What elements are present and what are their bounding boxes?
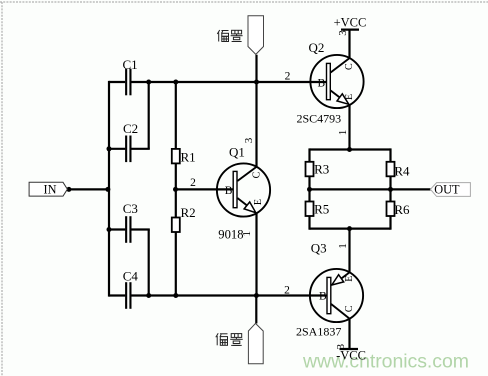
svg-text:www.cntronics.com: www.cntronics.com bbox=[302, 351, 469, 373]
svg-text:OUT: OUT bbox=[434, 183, 460, 197]
svg-text:C1: C1 bbox=[123, 57, 138, 72]
svg-text:3: 3 bbox=[243, 137, 255, 143]
svg-text:IN: IN bbox=[44, 183, 57, 197]
svg-text:E: E bbox=[344, 94, 355, 100]
svg-text:Q2: Q2 bbox=[309, 40, 325, 55]
svg-text:C4: C4 bbox=[123, 269, 139, 284]
svg-text:B: B bbox=[225, 185, 233, 197]
svg-text:C: C bbox=[344, 63, 355, 70]
svg-text:9018: 9018 bbox=[218, 228, 243, 242]
svg-text:R6: R6 bbox=[394, 202, 410, 217]
svg-text:R2: R2 bbox=[181, 205, 196, 220]
svg-text:+VCC: +VCC bbox=[334, 16, 367, 30]
svg-text:1: 1 bbox=[337, 243, 349, 249]
svg-text:R1: R1 bbox=[181, 150, 196, 165]
svg-text:B: B bbox=[319, 291, 327, 303]
svg-text:E: E bbox=[344, 276, 355, 282]
svg-text:R5: R5 bbox=[314, 202, 329, 217]
svg-text:Q3: Q3 bbox=[311, 241, 327, 256]
svg-text:E: E bbox=[253, 199, 264, 205]
svg-text:C: C bbox=[252, 171, 263, 178]
svg-text:3: 3 bbox=[337, 30, 349, 36]
svg-text:R4: R4 bbox=[394, 164, 410, 179]
svg-text:3: 3 bbox=[335, 343, 347, 349]
svg-text:C2: C2 bbox=[123, 121, 138, 136]
svg-text:1: 1 bbox=[337, 130, 349, 136]
svg-text:Q1: Q1 bbox=[229, 144, 245, 159]
svg-text:1: 1 bbox=[241, 231, 253, 237]
svg-text:2SC4793: 2SC4793 bbox=[297, 111, 342, 125]
svg-text:2: 2 bbox=[285, 70, 291, 82]
svg-text:2: 2 bbox=[284, 285, 290, 297]
svg-text:2SA1837: 2SA1837 bbox=[296, 325, 341, 339]
svg-text:C3: C3 bbox=[123, 201, 138, 216]
svg-text:B: B bbox=[317, 78, 325, 90]
svg-text:2: 2 bbox=[190, 177, 196, 189]
svg-text:R3: R3 bbox=[314, 162, 329, 177]
svg-text:C: C bbox=[344, 305, 355, 312]
